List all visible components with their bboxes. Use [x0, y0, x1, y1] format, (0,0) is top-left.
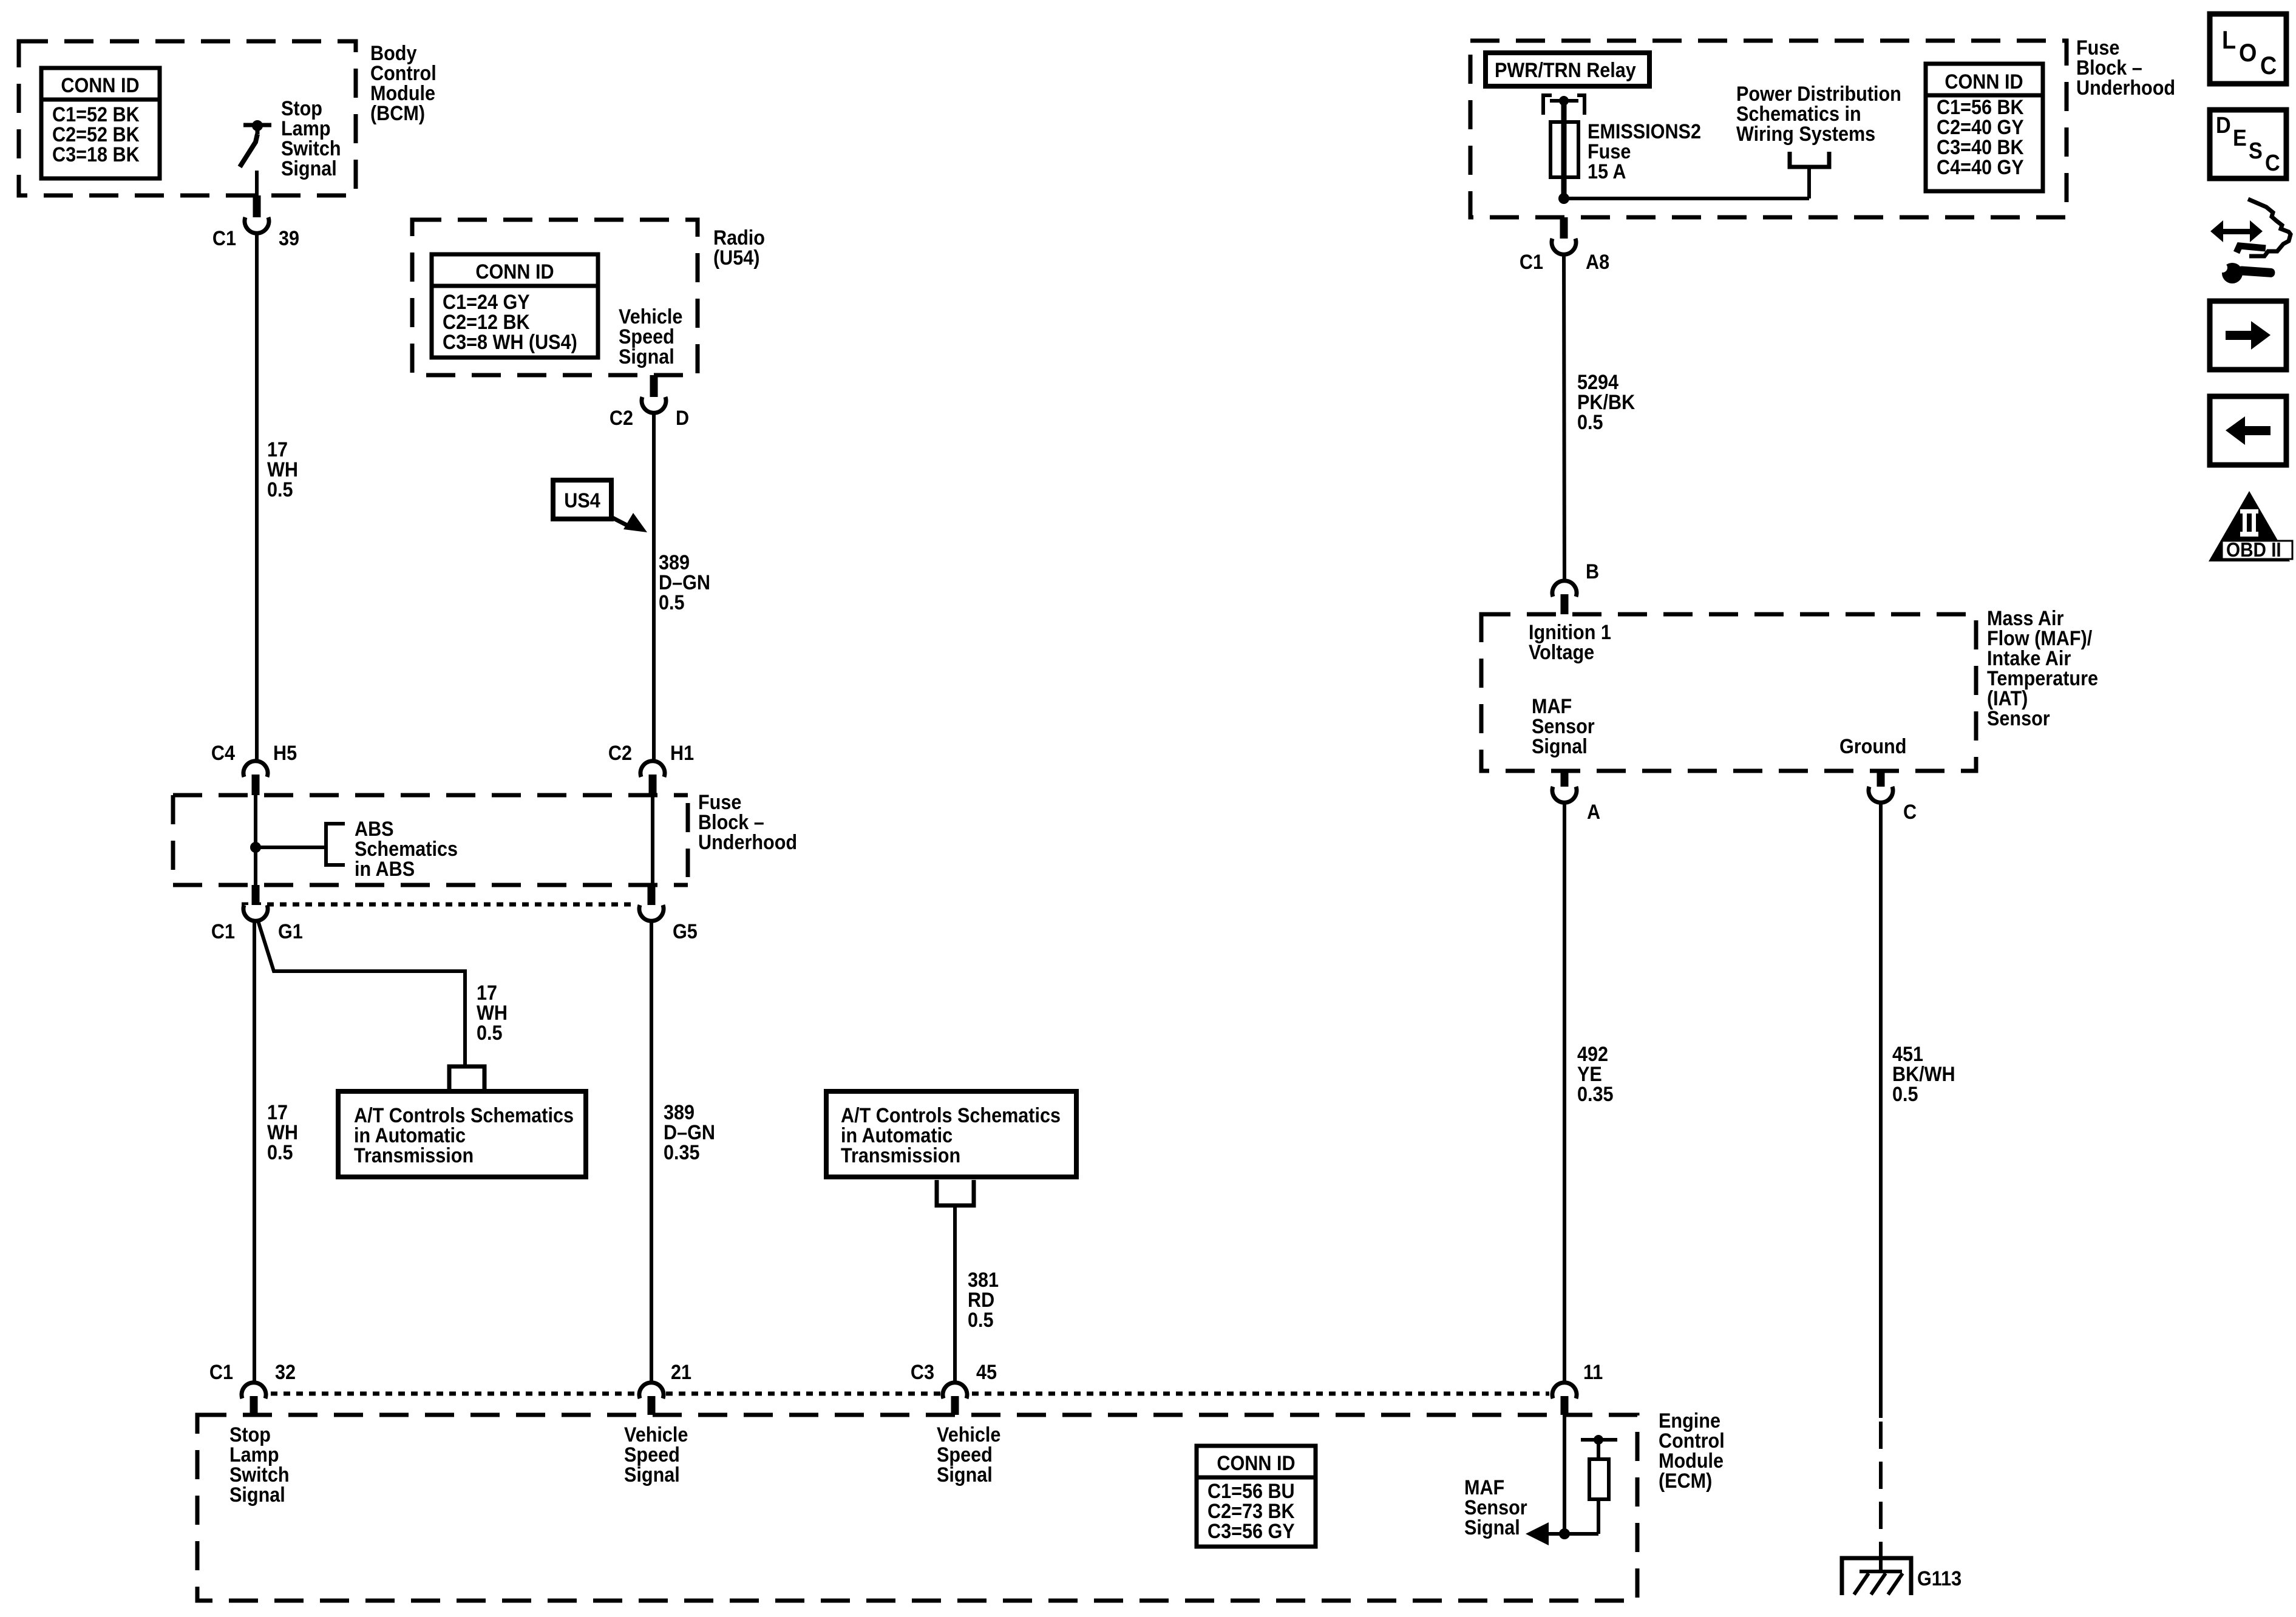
connector C1 pin 32 (ECM) [209, 1361, 296, 1415]
wire to ABS bracket [256, 846, 326, 849]
label Mass Air Flow (MAF)/Intake Air Temperature (IAT) Sensor [1987, 607, 2098, 730]
svg-text:32: 32 [275, 1361, 296, 1384]
wire fuse to junction [1561, 177, 1567, 198]
ground G113 [1842, 1558, 1961, 1595]
arrow MAF sensor signal (internal) [1526, 1522, 1549, 1545]
svg-text:45: 45 [976, 1361, 997, 1384]
connector C2 pin D (radio) [610, 375, 689, 429]
wire label 17 WH 0.5 (lower left) [267, 1101, 298, 1164]
wire label 5294 PK/BK 0.5 [1577, 371, 1635, 434]
svg-text:A: A [1587, 801, 1600, 824]
wire label 389 D-GN 0.5 [659, 551, 710, 614]
connector pin C (MAF sensor) [1869, 771, 1917, 823]
svg-text:CONN ID: CONN ID [61, 74, 139, 97]
connector pin A (MAF sensor) [1552, 771, 1600, 823]
label Ignition 1 Voltage (MAF pin) [1529, 621, 1611, 664]
wire label 389 D-GN 0.35 [664, 1101, 715, 1164]
wire label 492 YE 0.35 [1577, 1043, 1614, 1106]
icon OBD II triangle [2209, 491, 2292, 561]
A/T Controls Schematics reference box 2 [826, 1091, 1076, 1177]
off-page staple below A/T controls box 2 [937, 1180, 974, 1205]
svg-text:G1: G1 [278, 920, 303, 943]
svg-text:Signal: Signal [937, 1463, 993, 1486]
svg-text:A8: A8 [1586, 251, 1609, 274]
label EMISSIONS2 Fuse 15 A [1588, 120, 1701, 183]
svg-text:C4: C4 [211, 742, 235, 765]
label MAF Sensor Signal (MAF pin) [1532, 695, 1595, 758]
wire label 381 RD 0.5 [968, 1269, 999, 1332]
svg-text:C3=18 BK: C3=18 BK [52, 143, 140, 166]
svg-text:C2: C2 [608, 742, 632, 765]
svg-text:C1: C1 [209, 1361, 233, 1384]
svg-text:C3=8 WH (US4): C3=8 WH (US4) [443, 331, 577, 354]
svg-text:Signal: Signal [229, 1483, 285, 1507]
icon back arrow box [2210, 396, 2286, 465]
svg-text:OBD II: OBD II [2226, 539, 2281, 561]
label Power Distribution Schematics in Wiring Systems [1736, 83, 1901, 146]
svg-text:C1: C1 [211, 920, 235, 943]
wire 17 WH 0.5 (G1 to ECM C1/32) [253, 923, 256, 1381]
junction dot fuse output [1558, 193, 1569, 204]
CONN ID table (radio) [432, 254, 598, 358]
wire label 17 WH 0.5 (upper) [267, 438, 298, 501]
label Radio (U54) [713, 226, 765, 269]
wire branch to A/T controls (diagonal) [257, 919, 465, 1066]
wire 389 D-GN 0.35 (G5 to ECM 21) [650, 923, 653, 1381]
wire switch to BCM border [255, 171, 259, 200]
connector pin 11 (ECM) [1552, 1361, 1603, 1415]
svg-text:S: S [2249, 137, 2263, 163]
wire relay to fuse [1561, 101, 1567, 124]
CONN ID table (BCM) [41, 68, 160, 178]
BCM module box (dashed) [19, 41, 356, 195]
svg-text:0.5: 0.5 [1892, 1083, 1918, 1106]
svg-text:G113: G113 [1917, 1567, 1961, 1590]
svg-text:C4=40 GY: C4=40 GY [1937, 156, 2024, 179]
svg-text:0.5: 0.5 [267, 1141, 293, 1164]
svg-text:C1: C1 [212, 227, 236, 250]
relay PWR/TRN (label box) [1486, 53, 1649, 86]
svg-text:C3=56 GY: C3=56 GY [1207, 1520, 1295, 1543]
svg-text:in ABS: in ABS [355, 858, 415, 881]
wire 451 BK/WH 0.5 (MAF C to G113) [1879, 804, 1883, 1418]
ABS reference bracket [326, 822, 345, 867]
svg-text:C3: C3 [911, 1361, 934, 1384]
svg-text:Voltage: Voltage [1529, 641, 1594, 664]
svg-text:0.5: 0.5 [1577, 411, 1603, 434]
svg-text:D: D [2216, 112, 2231, 138]
MAF/IAT sensor box (dashed) [1481, 614, 1976, 771]
svg-text:Signal: Signal [624, 1463, 680, 1486]
svg-text:Underhood: Underhood [698, 831, 797, 854]
svg-text:H1: H1 [670, 742, 694, 765]
svg-text:Wiring Systems: Wiring Systems [1736, 123, 1875, 146]
wire 381 RD 0.5 (A/T controls to ECM C3/45) [953, 1205, 957, 1381]
svg-text:L: L [2222, 26, 2236, 54]
svg-text:CONN ID: CONN ID [1944, 70, 2023, 93]
wire label 451 BK/WH 0.5 [1892, 1043, 1955, 1106]
svg-text:39: 39 [279, 227, 299, 250]
svg-text:Signal: Signal [281, 157, 337, 180]
label Fuse Block - Underhood (left) [698, 791, 797, 854]
connector C3 pin 45 (ECM) [911, 1361, 997, 1415]
label Vehicle Speed Signal (ECM pin 45) [937, 1423, 1000, 1486]
CONN ID table (fuse block) [1926, 64, 2043, 191]
icon LOC box [2210, 14, 2286, 84]
connector pin 21 (ECM) [639, 1361, 691, 1415]
svg-text:11: 11 [1583, 1361, 1603, 1384]
svg-text:B: B [1586, 560, 1599, 583]
wire dashed segment to ground [1879, 1422, 1883, 1558]
junction dot ABS tap [250, 842, 261, 853]
label MAF Sensor Signal (ECM pin 11) [1464, 1476, 1527, 1539]
svg-text:US4: US4 [564, 489, 600, 512]
svg-text:0.5: 0.5 [968, 1309, 994, 1332]
fuse block underhood box right (dashed) [1470, 41, 2067, 217]
svg-text:0.5: 0.5 [267, 478, 293, 501]
fuse EMISSIONS2 15 A [1550, 122, 1578, 177]
svg-text:0.5: 0.5 [659, 591, 685, 614]
connector pin G5 (fuse block bottom) [639, 885, 698, 943]
junction dot MAF sensor signal [1559, 1528, 1570, 1539]
svg-text:G5: G5 [673, 920, 698, 943]
wire dotted in-line harness run (ECM top row) [271, 1392, 1549, 1396]
icon DESC box [2210, 110, 2286, 178]
svg-text:C: C [1903, 801, 1917, 824]
wire 17 WH 0.5 (BCM C1/39 to fuse block C4/H5) [255, 235, 259, 760]
connector C1 pin 39 (BCM) [212, 195, 299, 249]
label Fuse Block - Underhood (right) [2076, 36, 2175, 100]
label Ground (MAF pin) [1839, 735, 1906, 758]
svg-text:Underhood: Underhood [2076, 76, 2175, 100]
CONN ID table (ECM) [1197, 1446, 1316, 1547]
wire ECM pin 11 internal [1563, 1415, 1566, 1534]
wire junction to power distribution tap [1564, 167, 1809, 198]
svg-text:Transmission: Transmission [841, 1144, 960, 1167]
svg-text:O: O [2239, 39, 2257, 67]
svg-text:Signal: Signal [1464, 1516, 1520, 1539]
label Stop Lamp Switch Signal (ECM pin) [229, 1423, 290, 1507]
wire dotted in-line harness run (fuse block bottom row) [242, 903, 637, 907]
connector C1 pin G1 (fuse block bottom) [211, 885, 303, 943]
ECM module box (dashed) [197, 1415, 1637, 1601]
off-page staple to A/T controls box 1 [449, 1066, 484, 1091]
svg-text:D: D [676, 407, 689, 430]
icon wrench/connector (diagnostic) [2210, 199, 2291, 283]
svg-text:C: C [2260, 52, 2277, 80]
stop lamp switch SW (BCM) [240, 120, 271, 167]
svg-text:Ground: Ground [1839, 735, 1906, 758]
radio module box (dashed) [412, 220, 698, 375]
svg-text:Transmission: Transmission [354, 1144, 474, 1167]
label Vehicle Speed Signal (radio pin) [619, 305, 682, 368]
svg-text:PWR/TRN Relay: PWR/TRN Relay [1495, 59, 1636, 82]
svg-text:21: 21 [671, 1361, 691, 1384]
connector pin B (MAF sensor) [1552, 560, 1599, 614]
svg-text:Signal: Signal [619, 345, 674, 368]
svg-text:15 A: 15 A [1588, 160, 1626, 183]
svg-text:0.35: 0.35 [664, 1141, 700, 1164]
svg-text:Signal: Signal [1532, 735, 1588, 758]
US4 option flag box [553, 480, 647, 532]
svg-text:C1: C1 [1520, 251, 1543, 274]
relay output terminal bracket [1543, 95, 1584, 115]
resistor R (ECM MAF input pull-up) [1531, 1435, 1617, 1534]
label Vehicle Speed Signal (ECM pin 21) [624, 1423, 688, 1486]
connector C4 pin H5 (fuse block top) [211, 742, 297, 795]
svg-text:(U54): (U54) [713, 246, 759, 269]
A/T Controls Schematics reference box 1 [338, 1091, 586, 1177]
svg-text:(ECM): (ECM) [1659, 1470, 1712, 1493]
svg-text:H5: H5 [273, 742, 297, 765]
label Engine Control Module (ECM) [1659, 1409, 1725, 1493]
svg-text:C2: C2 [610, 407, 633, 430]
connector C1 pin A8 (fuse block) [1520, 217, 1609, 273]
label Body Control Module (BCM) [370, 42, 436, 125]
wire label 17 WH 0.5 (branch) [477, 981, 508, 1045]
label ABS Schematics in ABS [355, 818, 458, 881]
svg-text:(BCM): (BCM) [370, 102, 425, 125]
fuse block underhood box left (dashed) [173, 795, 688, 885]
wire inside fuse block (vehicle speed) [651, 795, 654, 885]
label Stop Lamp Switch Signal (BCM pin) [281, 97, 341, 180]
svg-text:CONN ID: CONN ID [475, 260, 554, 283]
wire 492 YE 0.35 (MAF A to ECM 11) [1563, 804, 1566, 1381]
svg-text:0.35: 0.35 [1577, 1083, 1614, 1106]
connector C2 pin H1 (fuse block top) [608, 742, 694, 795]
off-page staple to Power Distribution [1790, 152, 1829, 167]
wire 389 D-GN 0.5 (radio to fuse block H1) [652, 415, 656, 760]
svg-text:Sensor: Sensor [1987, 707, 2050, 730]
svg-text:E: E [2233, 124, 2247, 151]
icon forward arrow box [2210, 301, 2286, 370]
wire inside fuse block (stop lamp) [254, 795, 257, 885]
svg-text:CONN ID: CONN ID [1217, 1452, 1295, 1475]
wire 5294 PK/BK 0.5 (fuse block to MAF sensor B) [1564, 256, 1564, 579]
svg-text:C: C [2265, 149, 2280, 175]
svg-text:0.5: 0.5 [477, 1022, 503, 1045]
